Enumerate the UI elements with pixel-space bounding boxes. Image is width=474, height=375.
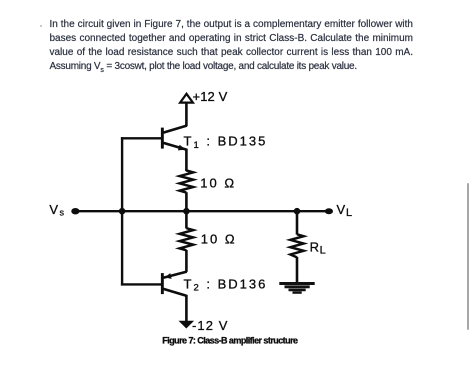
wire T2 collector to -12V <box>185 295 188 321</box>
resistor RL <box>290 234 303 257</box>
node junction dot RL branch <box>294 208 301 215</box>
wire RL to ground <box>296 257 299 284</box>
svg-text:10 Ω: 10 Ω <box>201 231 237 246</box>
T2 label <box>184 276 268 293</box>
wire mid node to R2 <box>185 211 188 228</box>
svg-text:Vs: Vs <box>49 202 65 218</box>
svg-text:VL: VL <box>337 202 353 219</box>
wire R2 to T2 emitter <box>185 250 188 272</box>
faint list mark <box>40 25 42 27</box>
Vs terminal dot <box>71 208 79 214</box>
svg-text:-12 V: -12 V <box>192 318 229 333</box>
transistor Q T2 BD136 (PNP) <box>161 272 187 296</box>
svg-text:+12 V: +12 V <box>193 89 228 104</box>
+12V supply arrow <box>180 94 193 103</box>
resistor R2 10 ohm <box>180 228 194 250</box>
wire T1 emitter to R1 <box>185 149 188 172</box>
mid horizontal wire Vs to VL <box>75 210 328 212</box>
ground <box>279 284 314 293</box>
scrollbar thumb <box>467 183 470 330</box>
wire RL branch from node <box>296 211 299 234</box>
figure caption <box>162 336 298 346</box>
T1 label <box>184 134 268 151</box>
svg-text:T2 : BD136: T2 : BD136 <box>184 276 268 293</box>
svg-text:Figure 7: Class-B amplifier st: Figure 7: Class-B amplifier structure <box>162 336 298 346</box>
node junction dot left rail <box>119 208 126 215</box>
left rail wire <box>121 137 123 285</box>
R1 value label 10 ohm <box>200 175 236 190</box>
Vs label <box>49 202 65 218</box>
T1 base wire <box>121 137 161 139</box>
problem statement paragraph <box>50 18 414 78</box>
wire R1 to mid node <box>185 192 188 211</box>
R2 value label 10 ohm <box>201 231 237 246</box>
transistor Q T1 BD135 (NPN) <box>161 126 187 151</box>
svg-text:10 Ω: 10 Ω <box>200 175 236 190</box>
VL label <box>337 202 353 219</box>
node junction dot main rail <box>183 208 190 215</box>
-12 V label <box>192 318 229 333</box>
RL label <box>310 240 327 257</box>
svg-text:RL: RL <box>310 240 327 257</box>
-12V supply arrow <box>179 321 195 329</box>
svg-text:T1 : BD135: T1 : BD135 <box>184 134 268 151</box>
VL terminal dot <box>325 208 333 214</box>
wire +12V rail to T1 collector <box>185 102 188 126</box>
T2 base wire <box>121 283 161 285</box>
+12 V label <box>193 89 228 104</box>
resistor R1 10 ohm <box>180 171 194 193</box>
